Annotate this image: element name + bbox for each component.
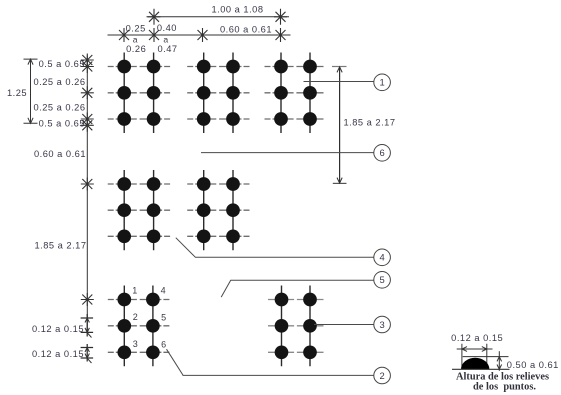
leader to callout 1 (304, 81, 374, 83)
svg-text:0.60 a 0.61: 0.60 a 0.61 (220, 24, 272, 34)
leader to callout 6 (201, 152, 374, 154)
svg-text:1.85 a 2.17: 1.85 a 2.17 (344, 118, 396, 128)
svg-text:0.25 a 0.26: 0.25 a 0.26 (33, 77, 85, 87)
svg-text:2: 2 (379, 370, 384, 381)
left extension line with star ticks (81, 54, 94, 333)
dimension 1.85 a 2.17 (right vertical) (332, 67, 396, 184)
svg-text:0.5 a 0.65: 0.5 a 0.65 (39, 59, 85, 69)
legend width dimension with arrows (457, 344, 493, 369)
leader to callout 4 (176, 238, 374, 258)
svg-text:de los puntos.: de los puntos. (473, 381, 536, 392)
callout circle 5 (374, 272, 391, 289)
braille cell D (mid-left) (108, 170, 170, 250)
svg-text:0.50 a 0.61: 0.50 a 0.61 (507, 360, 559, 370)
callout circle 3 (374, 316, 391, 333)
callout circle 6 (374, 145, 391, 162)
svg-text:0.12 a 0.15: 0.12 a 0.15 (32, 324, 84, 334)
svg-text:1: 1 (379, 77, 384, 88)
braille cell G (bottom-right) (268, 286, 324, 367)
legend baseline (452, 368, 510, 370)
svg-text:0.60 a 0.61: 0.60 a 0.61 (34, 149, 86, 159)
dimension line 0.25a0.26 / 0.40a0.47 / 0.60a0.61 (108, 23, 291, 54)
svg-text:1.85 a 2.17: 1.85 a 2.17 (34, 241, 86, 251)
leader to callout 2 (167, 349, 374, 375)
braille cell B (top-middle) (187, 53, 249, 134)
dimension 1.25 (far left vertical) (7, 59, 38, 123)
svg-text:4: 4 (379, 252, 384, 263)
leader to callout 5 (221, 280, 374, 297)
svg-text:4: 4 (161, 285, 166, 295)
leader to callout 3 (314, 324, 374, 326)
svg-text:0.40: 0.40 (157, 23, 177, 33)
svg-text:6: 6 (379, 147, 384, 158)
callout circle 2 (374, 367, 391, 384)
legend height dimension 0.50 a 0.61 (497, 351, 502, 371)
svg-text:1: 1 (132, 285, 137, 295)
dimension line 1.00 a 1.08 (147, 5, 290, 25)
svg-text:1.25: 1.25 (7, 88, 27, 98)
braille cell E (mid-middle) (187, 170, 249, 250)
braille cell C (top-right) (265, 53, 324, 134)
small dimension indicator (lower 0.12 a 0.15) (81, 344, 94, 363)
svg-text:2: 2 (133, 312, 138, 322)
svg-text:5: 5 (161, 313, 166, 323)
svg-text:5: 5 (379, 274, 384, 285)
small dimension indicator (upper 0.12 a 0.15) (81, 314, 94, 338)
svg-text:1.00 a 1.08: 1.00 a 1.08 (211, 5, 263, 15)
svg-text:3: 3 (379, 319, 384, 330)
callout circle 1 (374, 74, 391, 91)
svg-text:0.12 a 0.15: 0.12 a 0.15 (32, 349, 84, 359)
dome (dot relief profile) (461, 358, 489, 370)
svg-text:0.26: 0.26 (126, 44, 146, 54)
callout circle 4 (374, 249, 391, 266)
svg-text:0.5 a 0.65: 0.5 a 0.65 (39, 118, 85, 128)
svg-text:0.25 a 0.26: 0.25 a 0.26 (33, 102, 85, 112)
svg-text:6: 6 (161, 339, 166, 349)
svg-text:0.47: 0.47 (157, 44, 177, 54)
svg-text:0.25: 0.25 (126, 24, 146, 34)
legend dome-top line (463, 356, 509, 358)
svg-text:3: 3 (133, 339, 138, 349)
svg-text:0.12 a 0.15: 0.12 a 0.15 (451, 333, 503, 343)
braille cell A (top-left) (108, 53, 170, 134)
braille cell F (bottom-left, numbered dots) (108, 285, 170, 366)
